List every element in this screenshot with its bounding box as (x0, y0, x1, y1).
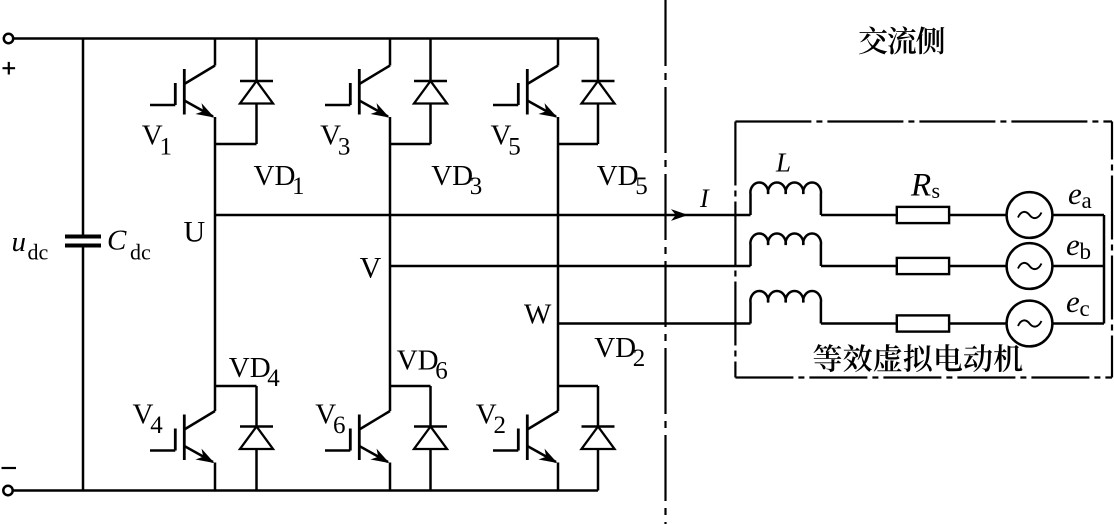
wire bottom rail (13, 489, 598, 492)
svg-text:I: I (699, 184, 710, 213)
capacitor Cdc (65, 237, 101, 246)
wire c1 (821, 322, 897, 325)
resistor Rs phase a (897, 207, 949, 223)
box right edge (dash-dot) (1111, 122, 1113, 378)
wire junction V2-VD2 (558, 385, 598, 388)
svg-text:dc: dc (130, 240, 151, 265)
svg-text:C: C (107, 225, 127, 257)
wire anode VD4 (255, 449, 258, 491)
wire phase W (558, 322, 751, 325)
svg-text:R: R (910, 167, 931, 203)
wire cathode VD4 (255, 386, 258, 427)
svg-text:3: 3 (338, 134, 351, 161)
svg-text:e: e (1066, 227, 1080, 262)
wire cathode VD1 (255, 39, 258, 82)
wire top rail (13, 37, 598, 40)
wire leg down to lower IGBT (214, 215, 217, 411)
wire junction V1-VD1 (215, 143, 257, 146)
svg-text:VD: VD (431, 160, 473, 192)
svg-text:3: 3 (470, 173, 483, 200)
wire b2 (949, 265, 1007, 268)
box bottom edge (dash-dot) (735, 376, 1112, 378)
wire a1 (821, 214, 897, 217)
wire emitter V2 to bottom rail (557, 463, 560, 491)
svg-text:1: 1 (292, 173, 305, 200)
wire phase V (390, 265, 751, 268)
svg-text:V: V (360, 252, 382, 285)
svg-text:5: 5 (635, 173, 648, 200)
wire junction V3-VD3 (390, 143, 431, 146)
svg-text:VD: VD (597, 160, 639, 192)
wire cathode VD2 (597, 386, 600, 427)
svg-text:c: c (1080, 296, 1090, 321)
wire emitter V4 to bottom rail (214, 463, 217, 491)
svg-text:dc: dc (28, 240, 49, 265)
transistor V2 (IGBT) (527, 411, 558, 430)
wire collector V3 (389, 39, 392, 66)
svg-text:a: a (1082, 188, 1092, 213)
svg-text:5: 5 (508, 134, 521, 161)
svg-text:W: W (524, 299, 552, 331)
wire b3 (1052, 265, 1104, 268)
wire cathode VD5 (597, 39, 600, 82)
wire anode VD3 (429, 104, 432, 145)
svg-text:4: 4 (267, 365, 280, 392)
wire junction V4-VD4 (215, 385, 257, 388)
wire leg down to lower IGBT (389, 266, 392, 411)
wire DC link lower (82, 246, 85, 491)
wire leg down to lower IGBT (557, 324, 560, 412)
source eb (1007, 243, 1053, 289)
diode VD1 (240, 80, 273, 83)
wire a3 (1052, 214, 1104, 217)
svg-text:VD: VD (594, 332, 636, 364)
wire emitter V5 down to phase node (557, 117, 560, 324)
svg-text:s: s (932, 178, 941, 203)
diode VD2 (582, 425, 615, 428)
source ea (1007, 192, 1053, 238)
wire collector V5 (557, 39, 560, 66)
wire anode VD5 (597, 104, 600, 145)
svg-text:L: L (775, 148, 791, 178)
box left edge (dash-dot) (734, 122, 736, 378)
wire DC link upper (82, 39, 85, 237)
inductor L phase c (750, 291, 821, 323)
wire emitter V6 to bottom rail (389, 463, 392, 491)
wire cathode VD3 (429, 39, 432, 82)
box equivalent virtual motor top edge (dash-dot) (735, 120, 1112, 122)
diode VD5 (582, 80, 615, 83)
svg-text:e: e (1066, 284, 1080, 319)
diode VD4 (240, 425, 273, 428)
label 等效虚拟电动机 (equivalent virtual motor) (814, 344, 842, 372)
label 交流侧 (AC side) (859, 26, 887, 54)
terminal + (top-left) (4, 34, 13, 43)
label - (2, 467, 17, 469)
wire b1 (821, 265, 897, 268)
terminal - (bottom-left) (3, 486, 12, 495)
resistor Rs phase b (897, 258, 949, 274)
wire junction V6-VD6 (390, 385, 431, 388)
svg-text:1: 1 (160, 134, 173, 161)
inductor L phase a (750, 183, 821, 215)
diode VD3 (414, 80, 447, 83)
label + (3, 62, 16, 75)
svg-text:VD: VD (254, 160, 296, 192)
svg-text:2: 2 (633, 345, 646, 372)
wire junction V5-VD5 (558, 143, 598, 146)
wire emitter V1 down to phase node (214, 117, 217, 215)
inductor L phase b (750, 234, 821, 266)
wire emitter V3 down to phase node (389, 117, 392, 266)
svg-text:VD: VD (397, 345, 439, 377)
wire a2 (949, 214, 1007, 217)
svg-text:VD: VD (229, 352, 271, 384)
wire anode VD1 (255, 104, 258, 145)
wire collector V1 (214, 39, 217, 66)
transistor V4 (IGBT) (184, 411, 215, 430)
transistor V3 (IGBT) (359, 66, 390, 85)
transistor V1 (IGBT) (184, 66, 215, 85)
source ec (1007, 301, 1053, 347)
svg-text:u: u (12, 226, 27, 258)
svg-text:b: b (1080, 239, 1092, 264)
wire anode VD2 (597, 449, 600, 491)
transistor V5 (IGBT) (527, 66, 558, 85)
wire c2 (949, 322, 1007, 325)
svg-text:U: U (184, 216, 206, 249)
svg-text:2: 2 (494, 412, 507, 439)
wire c3 (1052, 322, 1104, 325)
svg-text:6: 6 (435, 358, 448, 385)
wire neutral bus (1103, 215, 1106, 324)
svg-text:4: 4 (150, 412, 163, 439)
arrow I on phase U (673, 210, 687, 220)
svg-text:6: 6 (333, 412, 346, 439)
transistor V6 (IGBT) (359, 411, 390, 430)
boundary line (dash-dot) (664, 0, 666, 524)
svg-text:e: e (1068, 176, 1082, 211)
wire cathode VD6 (429, 386, 432, 427)
diode VD6 (414, 425, 447, 428)
resistor Rs phase c (897, 315, 949, 331)
wire phase U (215, 214, 751, 217)
wire anode VD6 (429, 449, 432, 491)
